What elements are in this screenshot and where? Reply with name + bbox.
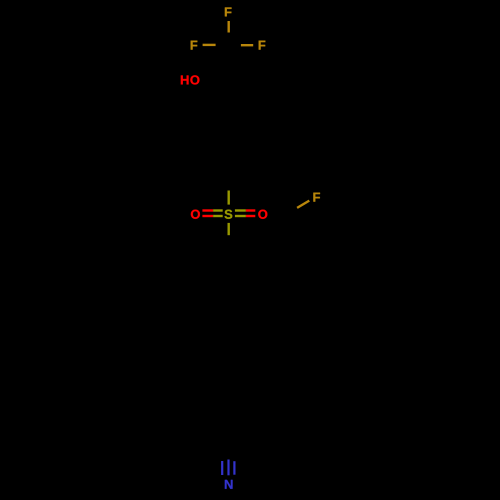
fluorine F (fluoromethyl, middle right) xyxy=(313,193,320,202)
fluorine F (left of CF3 group) xyxy=(191,41,198,50)
wire: C-F bond top (F-colored half) xyxy=(227,21,229,33)
wire: nitrile C#N triple bond (N-colored half, three lines) xyxy=(221,461,223,475)
wire: C-F bond middle right (F-colored half) xyxy=(297,201,309,208)
nitrogen N of nitrile xyxy=(225,480,233,489)
fluorine F (top of CF3 group) xyxy=(225,7,232,16)
wire: S=O left double bond, S-colored half xyxy=(213,209,223,211)
wire: C-F bond right (F-colored half) xyxy=(241,44,253,46)
wire: C-F bond left (F-colored half) xyxy=(203,44,216,46)
wire: S=O right double bond, O-colored half xyxy=(246,209,255,211)
wire: C-S bond above S (S-colored half) xyxy=(227,191,229,205)
sulfur S of sulfonyl group xyxy=(225,210,233,219)
hydroxyl group HO label xyxy=(181,75,189,84)
oxygen O (sulfonyl right) xyxy=(258,210,267,219)
fluorine F (right of CF3 group) xyxy=(259,41,266,50)
wire: S=O left double bond, O-colored half xyxy=(202,209,213,211)
oxygen O (sulfonyl left) xyxy=(191,210,200,219)
wire: S=O right double bond, S-colored half xyxy=(235,209,246,211)
wire: S-C bond below S (S-colored half) xyxy=(227,223,229,235)
